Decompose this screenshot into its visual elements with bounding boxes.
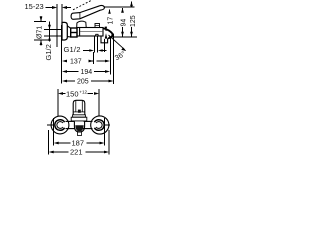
- svg-text:G1/2: G1/2: [64, 45, 81, 54]
- svg-text:17: 17: [108, 17, 115, 25]
- svg-text:205: 205: [77, 79, 89, 86]
- svg-text:125: 125: [130, 15, 137, 27]
- svg-text:150: 150: [66, 89, 79, 98]
- svg-text:187: 187: [72, 139, 85, 148]
- svg-text:194: 194: [81, 69, 93, 76]
- svg-text:137: 137: [70, 59, 82, 66]
- svg-text:15-23: 15-23: [25, 2, 44, 11]
- svg-text:+12: +12: [79, 90, 87, 95]
- svg-text:G1/2: G1/2: [44, 44, 53, 60]
- svg-text:Ø71: Ø71: [36, 26, 43, 39]
- svg-text:94: 94: [121, 19, 128, 27]
- svg-text:221: 221: [70, 148, 83, 157]
